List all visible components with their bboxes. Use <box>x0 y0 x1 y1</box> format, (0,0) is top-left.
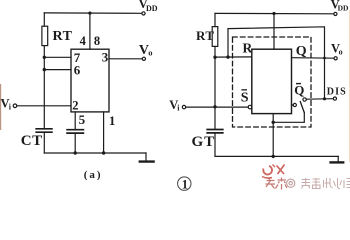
wire: RT bottom column down <box>214 46 216 128</box>
svg-text:DIS: DIS <box>327 87 347 98</box>
svg-text:i: i <box>177 103 180 112</box>
svg-text:DD: DD <box>146 4 158 13</box>
wire: GT bottom to ground rail <box>214 134 216 157</box>
node: dot loop corner <box>226 55 229 58</box>
scan edge mark left <box>0 84 1 130</box>
terminal: right VDD <box>334 12 337 15</box>
node: dot pole-riser junction <box>272 121 275 124</box>
wire: pins 4-8 riser <box>89 13 91 49</box>
terminal: left VDD <box>142 12 145 15</box>
transistor discharge switch: blade <box>300 102 304 113</box>
wire: DIS row <box>306 98 333 101</box>
wire: pin 3 output to Vo <box>109 58 142 60</box>
node: dot pin5 at rail <box>74 151 77 154</box>
watermark text 头条 (stroke imitation) <box>266 178 288 190</box>
wire: pin 6 <box>44 69 71 71</box>
svg-text:RT: RT <box>53 29 73 44</box>
svg-text:RT: RT <box>196 28 214 43</box>
svg-text:o: o <box>148 48 152 58</box>
node: dot at ground rail <box>272 155 275 158</box>
wire: VDD riser into flip-flop <box>273 14 275 50</box>
node: dot pin6 row <box>43 68 46 71</box>
555 internal boundary (dashed box) <box>233 37 312 127</box>
capacitor CT (left): top plate <box>36 128 52 130</box>
svg-text:o: o <box>339 47 343 56</box>
svg-text:i: i <box>9 103 12 112</box>
wire: R input row <box>215 56 252 58</box>
svg-text:(a): (a) <box>84 169 103 181</box>
svg-text:Q: Q <box>294 83 304 98</box>
node: dot Vo crossing <box>323 57 326 60</box>
node: Q-bar inversion bubble <box>292 104 294 106</box>
resistor RT (left circuit) <box>42 26 48 45</box>
watermark logo (red) <box>262 165 285 179</box>
svg-text:4: 4 <box>80 34 87 48</box>
svg-text:GT: GT <box>192 134 216 150</box>
wire: left VDD top rail <box>44 12 142 14</box>
wire: pin 1 to ground rail <box>103 112 105 153</box>
svg-text:S: S <box>241 90 249 105</box>
svg-text:Q: Q <box>296 44 307 59</box>
wire: RT bottom down left column <box>43 46 45 129</box>
terminal: DIS <box>333 97 336 100</box>
terminal: right Vo <box>334 57 337 60</box>
node: dot pin7 row <box>43 56 46 59</box>
wire: Q output to Vo <box>292 57 334 60</box>
wire: right ground rail <box>215 155 338 157</box>
node: right VDD junction dot <box>272 12 275 15</box>
wire: flip-flop bottom riser to ground rail <box>272 114 274 157</box>
terminal: left Vi <box>13 104 17 108</box>
wire: pin 5 down <box>74 112 76 129</box>
capacitor C5 (pin5 bypass): plates <box>67 129 83 131</box>
wire: Vi to S-bar bubble <box>186 106 248 108</box>
svg-text:DD: DD <box>338 3 349 12</box>
terminal: right Vi <box>182 105 185 108</box>
svg-text:1: 1 <box>182 177 188 191</box>
node: dot pin1 at rail <box>102 151 105 154</box>
wire: right VDD top rail <box>215 12 334 14</box>
node: dot DIS junction <box>323 97 326 100</box>
wire: rail to RT top <box>214 13 216 26</box>
svg-text:1: 1 <box>109 113 116 128</box>
svg-text:CT: CT <box>21 133 43 149</box>
flip-flop U2 box <box>252 49 292 113</box>
svg-text:5: 5 <box>79 112 86 127</box>
svg-text:2: 2 <box>72 99 78 113</box>
scan edge mark right <box>349 10 350 162</box>
watermark username glyph blocks <box>302 178 350 189</box>
resistor RT (right circuit) <box>212 27 218 47</box>
ground: right symbol <box>337 156 339 162</box>
svg-text:R: R <box>243 40 253 55</box>
node: S-bar inversion bubble <box>248 105 252 109</box>
node: dot Vi crossing <box>213 105 216 108</box>
svg-text:6: 6 <box>74 63 81 78</box>
capacitor CT (left): bottom plate <box>36 131 52 133</box>
ground: left symbol <box>145 153 147 161</box>
watermark @ <box>287 179 295 187</box>
wire: left ground rail <box>44 152 146 154</box>
wire: riser VDD rail to RT top <box>43 13 45 26</box>
node: dot RT junction <box>213 56 216 59</box>
svg-text:3: 3 <box>102 50 109 65</box>
wire: switch pole down and left <box>273 112 304 122</box>
label circled 1 <box>178 177 191 190</box>
svg-text:8: 8 <box>94 34 100 48</box>
wire: Vi to pin 2 <box>17 105 71 107</box>
node: left VDD junction dot <box>88 12 91 15</box>
wire: CT bottom to ground rail <box>43 133 45 153</box>
wire: discharge loop up-over-down <box>228 27 325 99</box>
capacitor GT: plates <box>207 129 223 131</box>
terminal: left Vo <box>142 57 145 60</box>
wire: pin5 cap to ground rail <box>74 134 76 153</box>
transistor discharge switch: contact <box>303 98 306 101</box>
wire: pin 7 <box>44 56 71 58</box>
op-amp U1: 555 IC box (left) <box>71 49 109 112</box>
